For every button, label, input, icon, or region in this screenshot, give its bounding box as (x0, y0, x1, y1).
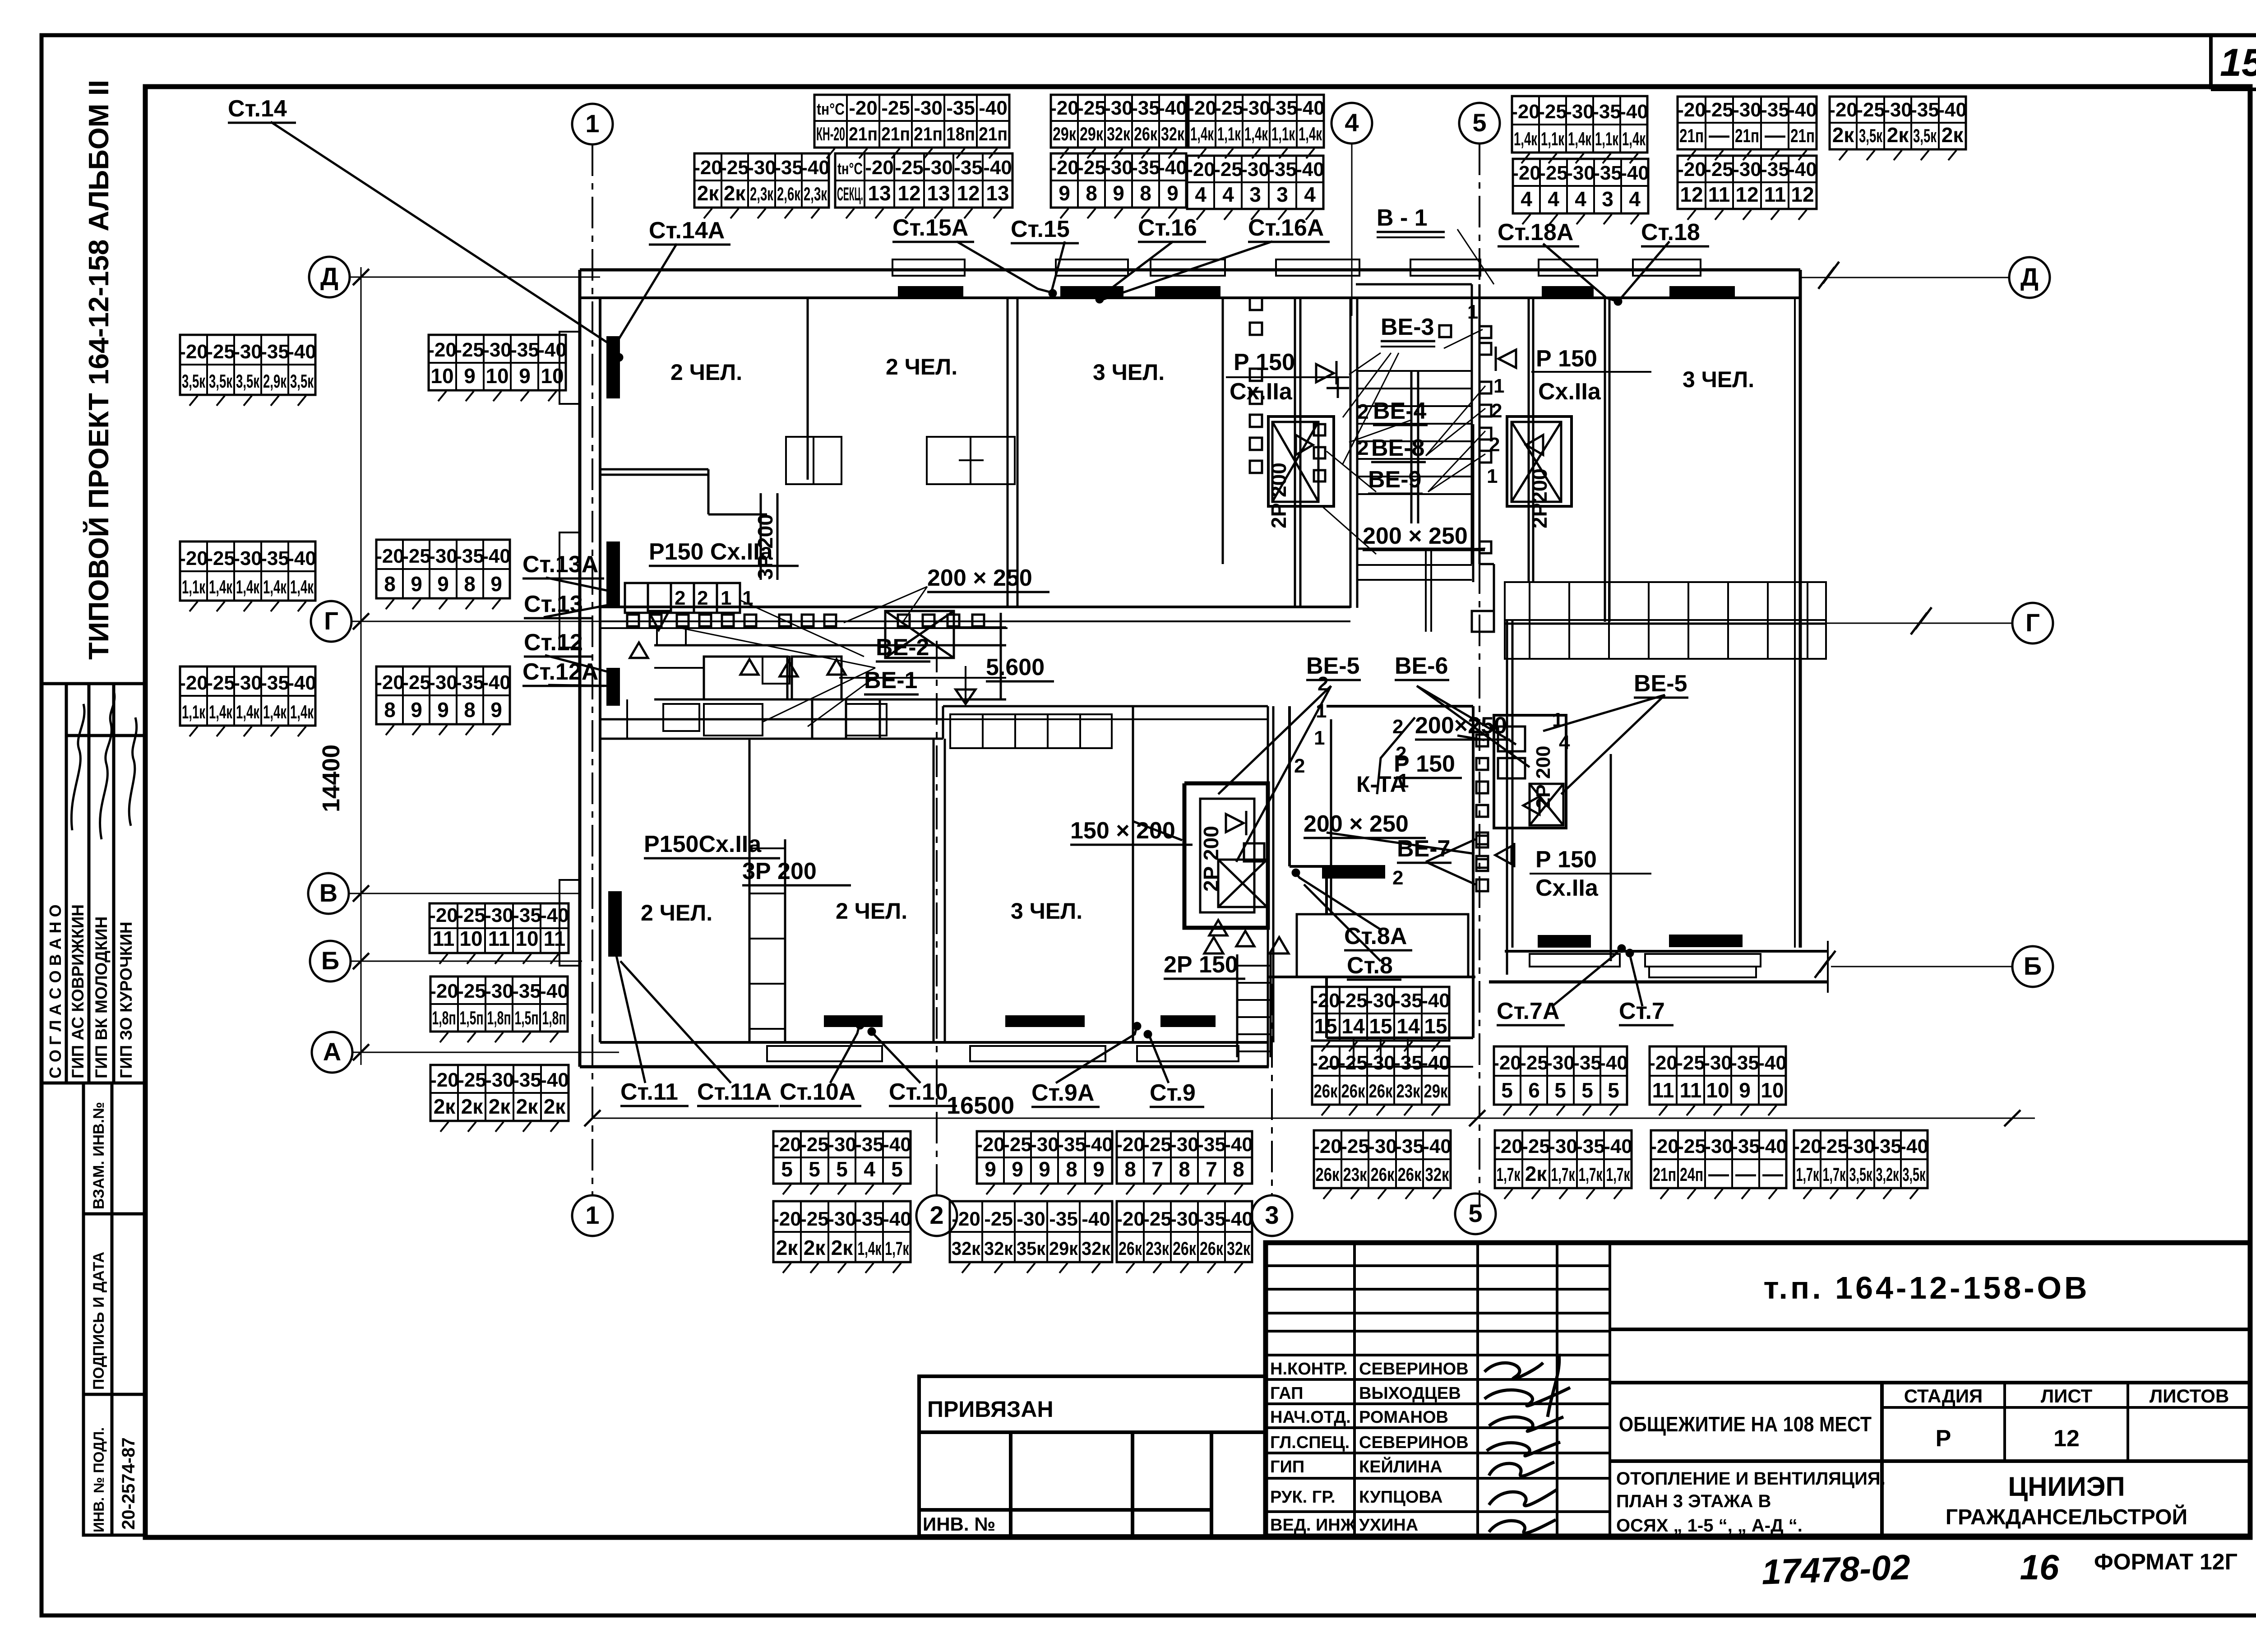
svg-text:1,4к: 1,4к (1299, 123, 1322, 144)
svg-text:-35: -35 (1731, 1135, 1760, 1157)
svg-text:2к: 2к (489, 1095, 511, 1118)
svg-text:1: 1 (1493, 375, 1504, 397)
central vent shaft Г-block (1184, 783, 1268, 928)
svg-text:2к: 2к (1887, 123, 1909, 147)
svg-text:1: 1 (1467, 301, 1478, 323)
svg-text:-25: -25 (1705, 158, 1734, 180)
svg-text:ВЕ-5: ВЕ-5 (1634, 671, 1687, 697)
svg-text:2: 2 (1392, 867, 1403, 889)
svg-text:8: 8 (1086, 181, 1097, 205)
svg-text:2 ЧЕЛ.: 2 ЧЕЛ. (886, 354, 957, 379)
svg-text:4: 4 (1195, 183, 1207, 206)
axis circle А left (312, 1032, 352, 1073)
top wall window bars (898, 286, 1735, 297)
svg-text:Ст.9А: Ст.9А (1031, 1080, 1094, 1106)
svg-text:-40: -40 (1082, 1208, 1110, 1230)
svg-text:4: 4 (1222, 183, 1234, 206)
svg-text:-30: -30 (828, 1208, 856, 1230)
svg-text:1,4к: 1,4к (1514, 128, 1538, 149)
svg-text:—: — (1762, 1162, 1783, 1185)
left exterior wall (580, 270, 600, 1067)
svg-text:-30: -30 (1883, 99, 1912, 121)
svg-text:-40: -40 (883, 1134, 911, 1156)
svg-text:Ст.16: Ст.16 (1138, 215, 1197, 241)
table values 1,1к.. (180, 541, 315, 601)
svg-text:-40: -40 (540, 904, 569, 926)
svg-text:200 × 250: 200 × 250 (1304, 811, 1409, 837)
svg-text:1: 1 (585, 1201, 599, 1229)
svg-text:-20: -20 (1512, 162, 1541, 184)
svg-text:-25: -25 (206, 672, 235, 694)
label 150 × 200 (1070, 818, 1193, 845)
upper wing corridor wall (600, 606, 1350, 608)
svg-text:Ст.9: Ст.9 (1150, 1080, 1196, 1106)
svg-text:-20: -20 (179, 672, 208, 694)
svg-text:Р 150: Р 150 (1234, 349, 1295, 375)
svg-text:-25: -25 (1856, 99, 1885, 121)
table values 2к.. (1830, 97, 1966, 149)
svg-text:2: 2 (697, 587, 708, 609)
axis circle Б right (2012, 946, 2053, 987)
label Сх.IIа (1538, 379, 1601, 405)
svg-text:21п: 21п (979, 123, 1008, 144)
svg-text:-30: -30 (1241, 158, 1270, 180)
svg-text:8: 8 (1124, 1157, 1136, 1181)
svg-text:26к: 26к (1341, 1080, 1366, 1101)
svg-text:32к: 32к (1227, 1238, 1251, 1259)
label 2Р 150 (1164, 952, 1245, 979)
label ВЕ-9 (1368, 467, 1423, 494)
svg-text:2Р200: 2Р200 (1528, 468, 1551, 528)
table values 26к.. (1117, 1201, 1252, 1262)
svg-text:3 ЧЕЛ.: 3 ЧЕЛ. (1683, 367, 1754, 392)
svg-text:Сх.IIа: Сх.IIа (1538, 379, 1601, 405)
corridor small squares row (627, 615, 984, 626)
svg-text:11: 11 (488, 927, 510, 950)
svg-text:-40: -40 (287, 547, 316, 569)
svg-text:1: 1 (1552, 709, 1563, 731)
svg-text:ПРИВЯЗАН: ПРИВЯЗАН (927, 1397, 1054, 1422)
axis circle Г right (2012, 603, 2053, 643)
svg-text:20-2574-87: 20-2574-87 (119, 1437, 139, 1530)
svg-text:-25: -25 (457, 980, 486, 1002)
svg-text:-30: -30 (1549, 1135, 1577, 1157)
svg-text:-35: -35 (1873, 1135, 1902, 1157)
leader lines stacks (271, 122, 1669, 1083)
svg-text:9: 9 (490, 572, 502, 596)
svg-text:-40: -40 (1788, 158, 1817, 180)
label ВЕ-2 (876, 634, 930, 662)
label Ст.15А (892, 215, 974, 242)
svg-text:32к: 32к (1161, 123, 1185, 144)
svg-text:ИНВ. №: ИНВ. № (923, 1513, 995, 1535)
svg-text:4: 4 (1304, 183, 1316, 206)
building top exterior wall (580, 270, 1800, 298)
svg-text:-35: -35 (1761, 99, 1789, 121)
svg-text:Р: Р (1936, 1425, 1951, 1452)
svg-text:Сх.IIа: Сх.IIа (1230, 379, 1293, 405)
svg-text:9: 9 (1167, 181, 1179, 205)
svg-text:12: 12 (1791, 183, 1814, 206)
svg-text:ПОДПИСЬ И ДАТА: ПОДПИСЬ И ДАТА (90, 1252, 107, 1390)
svg-text:-30: -30 (485, 904, 513, 926)
axis horizontal lines right (1782, 278, 2012, 967)
axis circle 1 bottom (572, 1195, 613, 1236)
svg-text:9: 9 (464, 364, 476, 388)
svg-text:1,4к: 1,4к (1622, 128, 1646, 149)
svg-text:ЛИСТ: ЛИСТ (2041, 1385, 2093, 1407)
svg-text:2Р 200: 2Р 200 (1199, 826, 1223, 892)
svg-text:4: 4 (1629, 187, 1641, 211)
svg-text:-35: -35 (510, 339, 539, 361)
svg-text:СЕВЕРИНОВ: СЕВЕРИНОВ (1359, 1433, 1469, 1452)
sheet number box 15 (2211, 35, 2256, 89)
corridor duct verticals (761, 493, 1001, 739)
svg-text:-35: -35 (1049, 1208, 1078, 1230)
svg-text:-25: -25 (402, 545, 431, 567)
axis circle 5 bottom (1455, 1194, 1496, 1234)
svg-text:-35: -35 (1576, 1135, 1605, 1157)
svg-text:-35: -35 (855, 1208, 884, 1230)
axis line 4 vertical (1351, 143, 1353, 316)
label Сх.IIа (1535, 875, 1599, 901)
stair flank shaft walls (1295, 298, 1533, 607)
svg-text:2к: 2к (831, 1236, 854, 1259)
svg-text:9: 9 (1059, 181, 1070, 205)
svg-text:-40: -40 (1604, 1135, 1632, 1157)
svg-text:5: 5 (1472, 108, 1486, 137)
svg-text:УХИНА: УХИНА (1359, 1516, 1418, 1535)
svg-text:ВЫХОДЦЕВ: ВЫХОДЦЕВ (1359, 1384, 1461, 1403)
svg-text:-25: -25 (1677, 1135, 1706, 1157)
svg-text:2Р 150: 2Р 150 (1164, 952, 1238, 978)
table values 21п.. (1651, 1130, 1786, 1188)
svg-text:-25: -25 (402, 671, 431, 694)
svg-text:1,4к: 1,4к (209, 701, 233, 722)
svg-text:1,8п: 1,8п (432, 1007, 456, 1028)
svg-text:-25: -25 (1339, 990, 1368, 1012)
label Ст.18 (1641, 219, 1709, 246)
svg-text:2к: 2к (1942, 123, 1964, 147)
stair lower landing (1357, 549, 1494, 632)
table values 5.. (1494, 1046, 1627, 1105)
label ВЕ-8 (1371, 435, 1426, 462)
svg-text:-35: -35 (946, 97, 975, 119)
room1 bottom step walls (600, 469, 767, 514)
svg-text:-30: -30 (1703, 1052, 1732, 1074)
svg-text:-20: -20 (179, 547, 208, 569)
axis circle Б left (310, 941, 351, 981)
svg-text:-30: -30 (1733, 158, 1761, 180)
svg-text:29к: 29к (1049, 1238, 1078, 1259)
svg-text:-25: -25 (1341, 1135, 1369, 1157)
svg-text:-30: -30 (1104, 157, 1133, 179)
label Ст.7А (1497, 998, 1565, 1025)
svg-text:35к: 35к (1017, 1238, 1046, 1259)
svg-text:-25: -25 (206, 547, 235, 569)
svg-text:26к: 26к (1369, 1080, 1393, 1101)
lower stairs center (1237, 706, 1331, 1057)
right-lower vent cluster (1494, 715, 1566, 828)
label Р 150 (1536, 346, 1597, 372)
svg-text:-20: -20 (1050, 157, 1079, 179)
svg-text:ВЕ-2: ВЕ-2 (876, 634, 929, 661)
stair flank symbols (1316, 347, 1516, 398)
svg-text:2,9к: 2,9к (263, 370, 287, 392)
svg-text:1,7к: 1,7к (1497, 1164, 1521, 1185)
svg-text:Ст.15: Ст.15 (1011, 216, 1070, 242)
svg-text:ЛИСТОВ: ЛИСТОВ (2150, 1385, 2229, 1407)
svg-text:2,3к: 2,3к (750, 183, 774, 204)
svg-text:-25: -25 (1676, 1052, 1705, 1074)
svg-text:Сх.IIа: Сх.IIа (1535, 875, 1599, 901)
svg-text:СЕВЕРИНОВ: СЕВЕРИНОВ (1359, 1360, 1469, 1379)
svg-text:-25: -25 (1538, 101, 1567, 123)
svg-text:2к: 2к (1525, 1162, 1548, 1185)
svg-text:11: 11 (1708, 183, 1730, 206)
svg-text:-25: -25 (1215, 97, 1244, 119)
sill cells over 3чел room (950, 714, 1112, 748)
svg-text:8: 8 (1179, 1157, 1190, 1181)
svg-text:-30: -30 (429, 671, 458, 694)
table values 26к.. (1314, 1130, 1451, 1188)
svg-text:-20: -20 (1494, 1135, 1523, 1157)
svg-text:10: 10 (1706, 1078, 1729, 1102)
svg-text:-20: -20 (849, 97, 878, 119)
svg-text:23к: 23к (1146, 1238, 1170, 1259)
svg-text:ВЕ-1: ВЕ-1 (864, 667, 917, 694)
axis line 3 vertical (1271, 984, 1273, 1195)
svg-text:18п: 18п (946, 123, 975, 144)
svg-text:-40: -40 (1599, 1052, 1628, 1074)
svg-text:-35: -35 (1269, 97, 1298, 119)
Стадия Лист Листов (1904, 1385, 2229, 1452)
axis line 2 vertical (936, 641, 938, 1195)
right vent niche X-box (1507, 416, 1572, 506)
table values 1,7к.. (1794, 1130, 1928, 1188)
Б axis bottom wall right wing (1489, 941, 1828, 993)
svg-text:2: 2 (1489, 434, 1500, 456)
svg-text:5: 5 (1581, 1078, 1593, 1102)
sill marks under Б wall (1530, 954, 1761, 977)
svg-text:4: 4 (864, 1157, 875, 1181)
svg-text:5: 5 (836, 1157, 848, 1181)
label 200 × 250 (927, 565, 1049, 592)
svg-text:1,7к: 1,7к (1823, 1164, 1846, 1185)
svg-text:12: 12 (957, 181, 980, 205)
svg-text:12: 12 (897, 181, 920, 205)
bottom dimension line 16500 (592, 1118, 2035, 1119)
svg-text:Ст.14А: Ст.14А (649, 217, 725, 244)
svg-text:-40: -40 (1084, 1134, 1113, 1156)
svg-text:2к: 2к (434, 1095, 456, 1118)
table values 4.. (1513, 159, 1648, 213)
svg-text:32к: 32к (984, 1238, 1013, 1259)
svg-text:-35: -35 (1910, 99, 1939, 121)
agreement block box (42, 684, 145, 1083)
svg-text:Ст.11А: Ст.11А (697, 1079, 772, 1105)
svg-text:3,2к: 3,2к (1876, 1164, 1900, 1185)
svg-text:ВЕ-9: ВЕ-9 (1368, 467, 1421, 493)
svg-text:2: 2 (1392, 716, 1403, 738)
svg-text:2: 2 (1357, 400, 1369, 423)
svg-text:1,1к: 1,1к (182, 701, 206, 722)
svg-text:21п: 21п (1653, 1164, 1676, 1185)
svg-text:т.п. 164-12-158-ОВ: т.п. 164-12-158-ОВ (1763, 1270, 2090, 1305)
stair lobby lines (1357, 549, 1472, 632)
svg-text:13: 13 (927, 181, 950, 205)
table values 11.. (1650, 1046, 1786, 1105)
svg-text:1,4к: 1,4к (290, 701, 314, 722)
svg-text:ОТОПЛЕНИЕ И ВЕНТИЛЯЦИЯ.: ОТОПЛЕНИЕ И ВЕНТИЛЯЦИЯ. (1616, 1469, 1886, 1489)
label ВЕ-4 (1373, 398, 1428, 425)
label Р 150 (1535, 847, 1597, 873)
svg-text:-40: -40 (1619, 101, 1648, 123)
label 200 × 250 (1363, 523, 1485, 550)
stair treads (1357, 371, 1472, 494)
svg-text:23к: 23к (1396, 1080, 1421, 1101)
svg-text:ВЕ-3: ВЕ-3 (1381, 314, 1434, 340)
svg-text:8: 8 (464, 698, 476, 722)
label Ст.14 (228, 96, 296, 123)
svg-text:2к: 2к (516, 1095, 539, 1118)
label Ст.8 (1347, 953, 1401, 980)
table values 1,4к.. (1512, 96, 1647, 153)
svg-text:Ст.12: Ст.12 (524, 629, 583, 656)
svg-text:12: 12 (1680, 183, 1703, 206)
svg-text:-25: -25 (457, 904, 485, 926)
svg-text:1,1к: 1,1к (182, 576, 206, 597)
svg-text:-35: -35 (1573, 1052, 1602, 1074)
svg-text:-20: -20 (428, 339, 457, 361)
svg-text:1,1к: 1,1к (1217, 123, 1241, 144)
svg-text:1: 1 (721, 587, 731, 609)
corridor cluster more boxes (627, 627, 790, 739)
svg-text:-35: -35 (1131, 157, 1160, 179)
svg-text:26к: 26к (1398, 1164, 1422, 1185)
left wall radiators (606, 336, 622, 957)
svg-text:-20: -20 (1116, 1208, 1145, 1230)
svg-text:-20: -20 (375, 671, 404, 694)
svg-text:-25: -25 (1521, 1135, 1550, 1157)
svg-text:26к: 26к (1200, 1238, 1224, 1259)
axis circle 1 top (572, 104, 613, 144)
axis circle Д right (2009, 257, 2050, 298)
svg-text:-30: -30 (1704, 1135, 1733, 1157)
svg-text:ГРАЖДАНСЕЛЬСТРОЙ: ГРАЖДАНСЕЛЬСТРОЙ (1946, 1504, 2187, 1529)
svg-text:-25: -25 (1003, 1134, 1032, 1156)
svg-text:2: 2 (1491, 400, 1502, 422)
svg-text:-30: -30 (1565, 101, 1594, 123)
label Ст.11А (697, 1079, 779, 1106)
svg-text:РОМАНОВ: РОМАНОВ (1359, 1408, 1448, 1427)
bottom wall window bars (824, 1015, 1216, 1027)
left dimension line 14400 (361, 267, 362, 1065)
svg-text:ГЛ.СПЕЦ.: ГЛ.СПЕЦ. (1270, 1433, 1350, 1452)
svg-text:9: 9 (411, 572, 422, 596)
svg-text:Ст.12А: Ст.12А (522, 659, 598, 685)
corridor extra lines (600, 628, 1008, 678)
svg-text:15: 15 (1369, 1014, 1392, 1038)
table values 21п.. (1678, 97, 1817, 149)
axis circle В left (308, 873, 349, 914)
svg-text:9: 9 (1739, 1078, 1751, 1102)
svg-text:11: 11 (433, 927, 455, 950)
svg-text:-35: -35 (512, 980, 541, 1002)
table КН-20 (814, 95, 1009, 148)
svg-text:3Р 200: 3Р 200 (742, 858, 817, 884)
svg-text:2,3к: 2,3к (804, 183, 828, 204)
svg-text:КЕЙЛИНА: КЕЙЛИНА (1359, 1456, 1442, 1476)
svg-text:ВЗАМ. ИНВ.№: ВЗАМ. ИНВ.№ (90, 1102, 107, 1209)
label Ст.11 (620, 1079, 689, 1106)
svg-text:-20: -20 (430, 1069, 459, 1091)
svg-text:-40: -40 (1224, 1208, 1253, 1230)
svg-text:Ст.13: Ст.13 (524, 591, 583, 617)
svg-text:-20: -20 (179, 341, 208, 363)
svg-text:-20: -20 (1650, 1135, 1679, 1157)
svg-text:1,7к: 1,7к (1551, 1164, 1576, 1185)
svg-text:-30: -30 (233, 672, 262, 694)
svg-text:Ст.10А: Ст.10А (780, 1079, 855, 1105)
svg-text:-20: -20 (1677, 99, 1706, 121)
svg-text:-30: -30 (233, 341, 262, 363)
svg-text:3: 3 (1249, 183, 1261, 206)
svg-text:-40: -40 (1295, 158, 1324, 180)
svg-text:1,5п: 1,5п (460, 1007, 484, 1028)
svg-text:26к: 26к (1314, 1080, 1338, 1101)
label Ст.8А (1344, 923, 1412, 950)
svg-text:Ст.18А: Ст.18А (1498, 219, 1573, 245)
svg-text:5: 5 (781, 1157, 793, 1181)
label ВЕ-3 (1381, 314, 1435, 347)
svg-text:ФОРМАТ 12Г: ФОРМАТ 12Г (2094, 1549, 2238, 1574)
porch steps (1327, 1038, 1473, 1067)
lower-left block bottom wall (580, 1042, 1269, 1067)
svg-text:В: В (319, 879, 337, 907)
svg-text:-40: -40 (540, 1069, 569, 1091)
svg-text:-40: -40 (801, 157, 830, 179)
svg-text:32к: 32к (1082, 1238, 1111, 1259)
svg-text:-40: -40 (1421, 990, 1450, 1012)
svg-text:2к: 2к (804, 1236, 826, 1259)
svg-text:3: 3 (1265, 1201, 1279, 1229)
svg-text:29к: 29к (1424, 1080, 1448, 1101)
svg-text:-20: -20 (1829, 99, 1858, 121)
svg-text:5: 5 (809, 1157, 820, 1181)
leader lines stair vents (1322, 229, 1494, 554)
label Сх.IIа (1230, 379, 1293, 405)
svg-text:3,5к: 3,5к (1849, 1164, 1873, 1185)
svg-text:1: 1 (1316, 700, 1327, 722)
table values 3,5к.. (180, 335, 315, 395)
svg-text:-25: -25 (1520, 1052, 1549, 1074)
svg-text:1,7к: 1,7к (1606, 1164, 1631, 1185)
axis circle 5 top (1459, 103, 1500, 143)
svg-text:24п: 24п (1680, 1164, 1703, 1185)
table values 1,1к.. (180, 666, 315, 726)
svg-text:-35: -35 (1592, 101, 1621, 123)
svg-text:-30: -30 (1368, 1135, 1397, 1157)
svg-text:-30: -30 (1017, 1208, 1045, 1230)
table values 8.. (376, 666, 510, 724)
label 5.600 (986, 654, 1054, 681)
svg-text:-25: -25 (455, 339, 484, 361)
svg-text:10: 10 (515, 927, 538, 950)
table values 12.. (1678, 156, 1817, 209)
table values 1,4к.. (1188, 95, 1324, 148)
label 200×250 (1415, 713, 1510, 740)
